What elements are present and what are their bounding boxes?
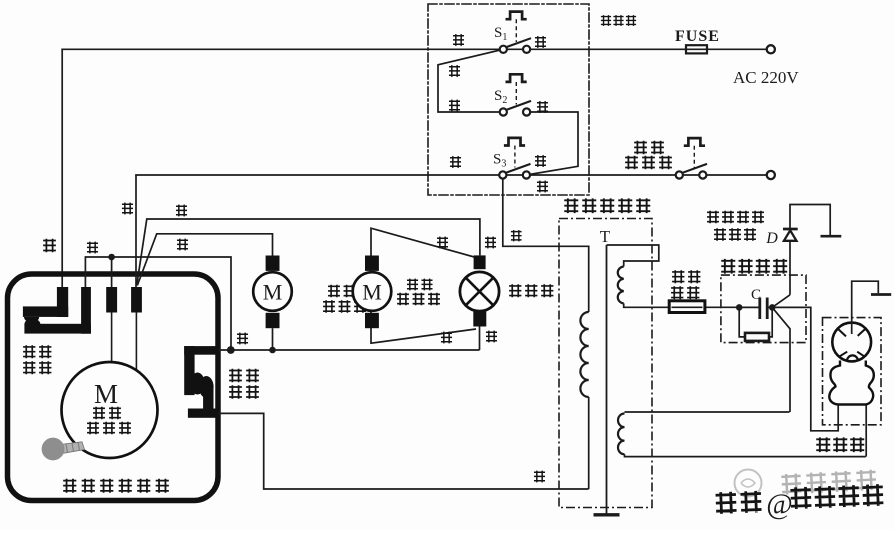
power switch 火力开关 contacts xyxy=(184,346,215,418)
label 黑 bottom xyxy=(534,471,545,483)
svg-text:D: D xyxy=(765,230,778,247)
label 红 upper xyxy=(449,65,460,77)
label 黑 duct bottom xyxy=(441,332,452,344)
wire red S1 to S2 xyxy=(438,49,503,112)
fan duct trapezoid wires 黄/黑 xyxy=(371,228,476,343)
label 控制器 xyxy=(625,156,672,170)
junction dot cap right node A xyxy=(769,304,776,311)
transformer core with ground xyxy=(594,245,620,515)
svg-text:AC 220V: AC 220V xyxy=(733,68,799,87)
magnetron box 磁控管 xyxy=(823,318,882,425)
label 蓝 first xyxy=(122,203,133,215)
label 转盘电动机 xyxy=(328,285,355,298)
label 照明灯 xyxy=(509,284,553,297)
label 黄 duct top xyxy=(437,237,448,249)
label 风扇电动机 xyxy=(407,279,433,291)
label 门开关 xyxy=(601,15,636,26)
label 红 right of S2 xyxy=(537,101,548,113)
timer motor M 定时电动机 xyxy=(62,362,158,458)
junction dot cap left xyxy=(736,304,743,311)
watermark ghost 维修人家 xyxy=(781,469,876,494)
wire node A to diode xyxy=(772,295,790,308)
label 黄 near power switch terminal xyxy=(237,333,248,345)
svg-text:FUSE: FUSE xyxy=(675,28,720,45)
switch S1 (door) xyxy=(500,12,531,53)
wire node A down to filament top xyxy=(772,307,790,412)
lamp 照明灯 xyxy=(479,327,481,351)
turntable motor M 转盘电动机 xyxy=(253,272,292,311)
magnetron anode spokes and cathode xyxy=(837,328,867,361)
label 高压变压器 xyxy=(564,198,650,213)
wire magnetron right leg xyxy=(865,405,867,457)
wire power switch to lamp bottom xyxy=(218,349,480,351)
fuse FUSE xyxy=(686,45,707,53)
label 定时开关 timer switch xyxy=(23,345,51,374)
label 蓝 second xyxy=(176,205,187,217)
timer switch contact pins 1-4 xyxy=(23,287,142,334)
svg-text:M: M xyxy=(263,280,283,305)
transformer primary winding xyxy=(580,246,588,489)
control box 机械控制装置 rounded enclosure xyxy=(8,274,219,501)
capacitor C plates xyxy=(739,298,772,320)
label 高压熔体 xyxy=(672,270,700,283)
junction dot turntable motor bottom xyxy=(269,347,276,354)
label 黄 lamp bottom xyxy=(486,331,497,343)
fan motor M 风扇电动机 xyxy=(353,272,392,311)
HV secondary winding (to core / fuse) xyxy=(607,245,740,307)
label 棕 right of S1 xyxy=(535,36,546,48)
svg-text:M: M xyxy=(362,280,382,305)
watermark 头条@维修人家 xyxy=(715,484,884,523)
wire white S3 to transformer primary xyxy=(503,175,589,246)
label 温度 xyxy=(634,141,664,155)
wire pin3 drop xyxy=(111,257,113,288)
label 白 xyxy=(511,230,522,241)
label 火力开关 xyxy=(229,369,259,399)
label 红 left of S2 xyxy=(449,100,460,112)
label 磁控管 xyxy=(816,437,864,452)
wire pin4 to timer motor xyxy=(135,313,137,371)
label 二极管 xyxy=(714,228,756,241)
label 蓝 lamp top xyxy=(485,237,496,249)
label 机械控制装置 xyxy=(63,479,169,493)
label 红 right of S3 xyxy=(535,155,546,167)
HV transformer box 高压变压器 xyxy=(559,219,652,508)
svg-text:T: T xyxy=(600,227,611,246)
watermark ghost logo xyxy=(735,470,762,497)
switch S2 (door) xyxy=(500,74,531,115)
wire AC line L2 horizontal xyxy=(136,174,767,176)
filament secondary winding xyxy=(618,412,866,457)
wire power switch output black to transformer xyxy=(218,413,589,489)
wire turntable bottom drop xyxy=(272,328,274,350)
magnetron tube body xyxy=(829,323,874,405)
door switch dashed box 门开关 enclosure xyxy=(428,4,589,195)
wire node A to magnetron cathode left xyxy=(772,307,838,430)
bleed resistor parallel branch xyxy=(739,307,772,341)
label 定时 电动机 xyxy=(93,407,121,420)
switch S3 (door) xyxy=(499,138,530,179)
HV capacitor box 高压电容 xyxy=(721,275,806,343)
terminal AC L1 xyxy=(767,45,775,53)
label 黄 at pin2 xyxy=(87,242,98,254)
HV fuse 高压熔体 xyxy=(669,301,705,313)
wire blue2 to lamp xyxy=(137,219,480,286)
label 高压电容 xyxy=(721,259,787,274)
diode D (HV rectifier) xyxy=(783,205,830,295)
wire brown drop to control box pin 1 xyxy=(61,49,63,287)
svg-text:@: @ xyxy=(766,488,794,521)
junction dot yellow/pin3 xyxy=(108,254,115,261)
label 蓝 left of S3 xyxy=(450,156,461,168)
label 高压整流 xyxy=(707,211,764,224)
label 蓝 below S3 xyxy=(537,181,548,193)
label 黑 xyxy=(177,239,188,251)
svg-text:M: M xyxy=(94,379,118,409)
wire pin3 to timer motor xyxy=(111,313,113,363)
timer knob gray xyxy=(60,442,85,454)
thermostat switch 温度控制器 xyxy=(676,138,707,179)
wire AC line L1 (brown) horizontal xyxy=(62,48,766,50)
terminal AC L2 xyxy=(767,171,775,179)
wire black to turntable motor xyxy=(137,234,272,286)
label 棕 left of S1 xyxy=(453,34,464,46)
wire yellow from pins to power switch xyxy=(85,257,231,350)
magnetron antenna to ground xyxy=(852,281,892,334)
ground at diode xyxy=(821,235,842,238)
terminal dot power switch xyxy=(227,346,235,354)
wire S2 output red to S3 xyxy=(526,112,578,175)
wire blue1 drop to pin 4 xyxy=(135,175,137,288)
label 棕 at pin1 xyxy=(43,239,56,253)
